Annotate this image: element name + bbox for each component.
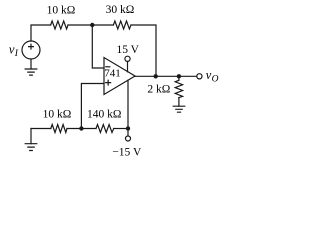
ground under R4 (173, 106, 185, 112)
bottom wire from ground to R3 (31, 128, 51, 130)
svg-text:−15 V: −15 V (112, 147, 142, 159)
resistor R5 140k (96, 125, 114, 133)
source plus sign (29, 44, 34, 49)
op-amp minus marker (106, 66, 110, 68)
op-amp V- pin wire down to -15V (127, 80, 129, 136)
wire R2 to feedback corner down to output node (131, 25, 156, 76)
resistor R1 10k (top) (51, 21, 68, 29)
wire output node down to R4 (178, 76, 180, 80)
svg-text:140 kΩ: 140 kΩ (87, 108, 121, 120)
op-amp U1 triangle (104, 58, 135, 95)
wire source to ground (30, 59, 32, 69)
svg-text:10 kΩ: 10 kΩ (43, 108, 72, 120)
junction node B dot (79, 126, 83, 130)
op-amp V+ pin stub (127, 62, 129, 72)
wire noninverting input down to node B (81, 84, 104, 129)
wire top-left from source to R1 (31, 25, 51, 41)
resistor R3 10k (bottom) (51, 125, 67, 133)
resistor R4 2k (vertical) (175, 80, 182, 97)
resistor R2 30k (feedback) (113, 21, 131, 29)
svg-text:vO: vO (206, 68, 219, 84)
ground bottom-left (25, 144, 37, 151)
junction output-feedback dot (154, 74, 158, 78)
svg-text:vI: vI (9, 43, 19, 60)
terminal circle vO (197, 74, 202, 79)
source vI circle (22, 41, 40, 59)
op-amp V+ terminal circle (125, 56, 130, 61)
wire bottom-left down to ground (30, 129, 32, 144)
output wire to vO (135, 75, 197, 77)
svg-text:2 kΩ: 2 kΩ (147, 84, 170, 96)
wire R1 to node A and on to R2 (68, 24, 113, 26)
op-amp plus marker (106, 80, 111, 85)
ground under source (25, 69, 37, 75)
junction node A dot (90, 23, 94, 27)
svg-text:741: 741 (104, 68, 121, 80)
svg-text:10 kΩ: 10 kΩ (47, 5, 76, 17)
wire R5 to -15V node (114, 128, 128, 130)
wire node A down to inverting input (92, 25, 104, 68)
junction output-R4 dot (177, 74, 181, 78)
svg-text:30 kΩ: 30 kΩ (106, 4, 135, 16)
wire R4 to ground (178, 98, 180, 107)
op-amp V- terminal circle -15V (126, 136, 131, 141)
svg-text:15 V: 15 V (116, 44, 139, 56)
junction -15V node dot (126, 126, 130, 130)
wire R3 to node B and on to R5 (67, 128, 96, 130)
